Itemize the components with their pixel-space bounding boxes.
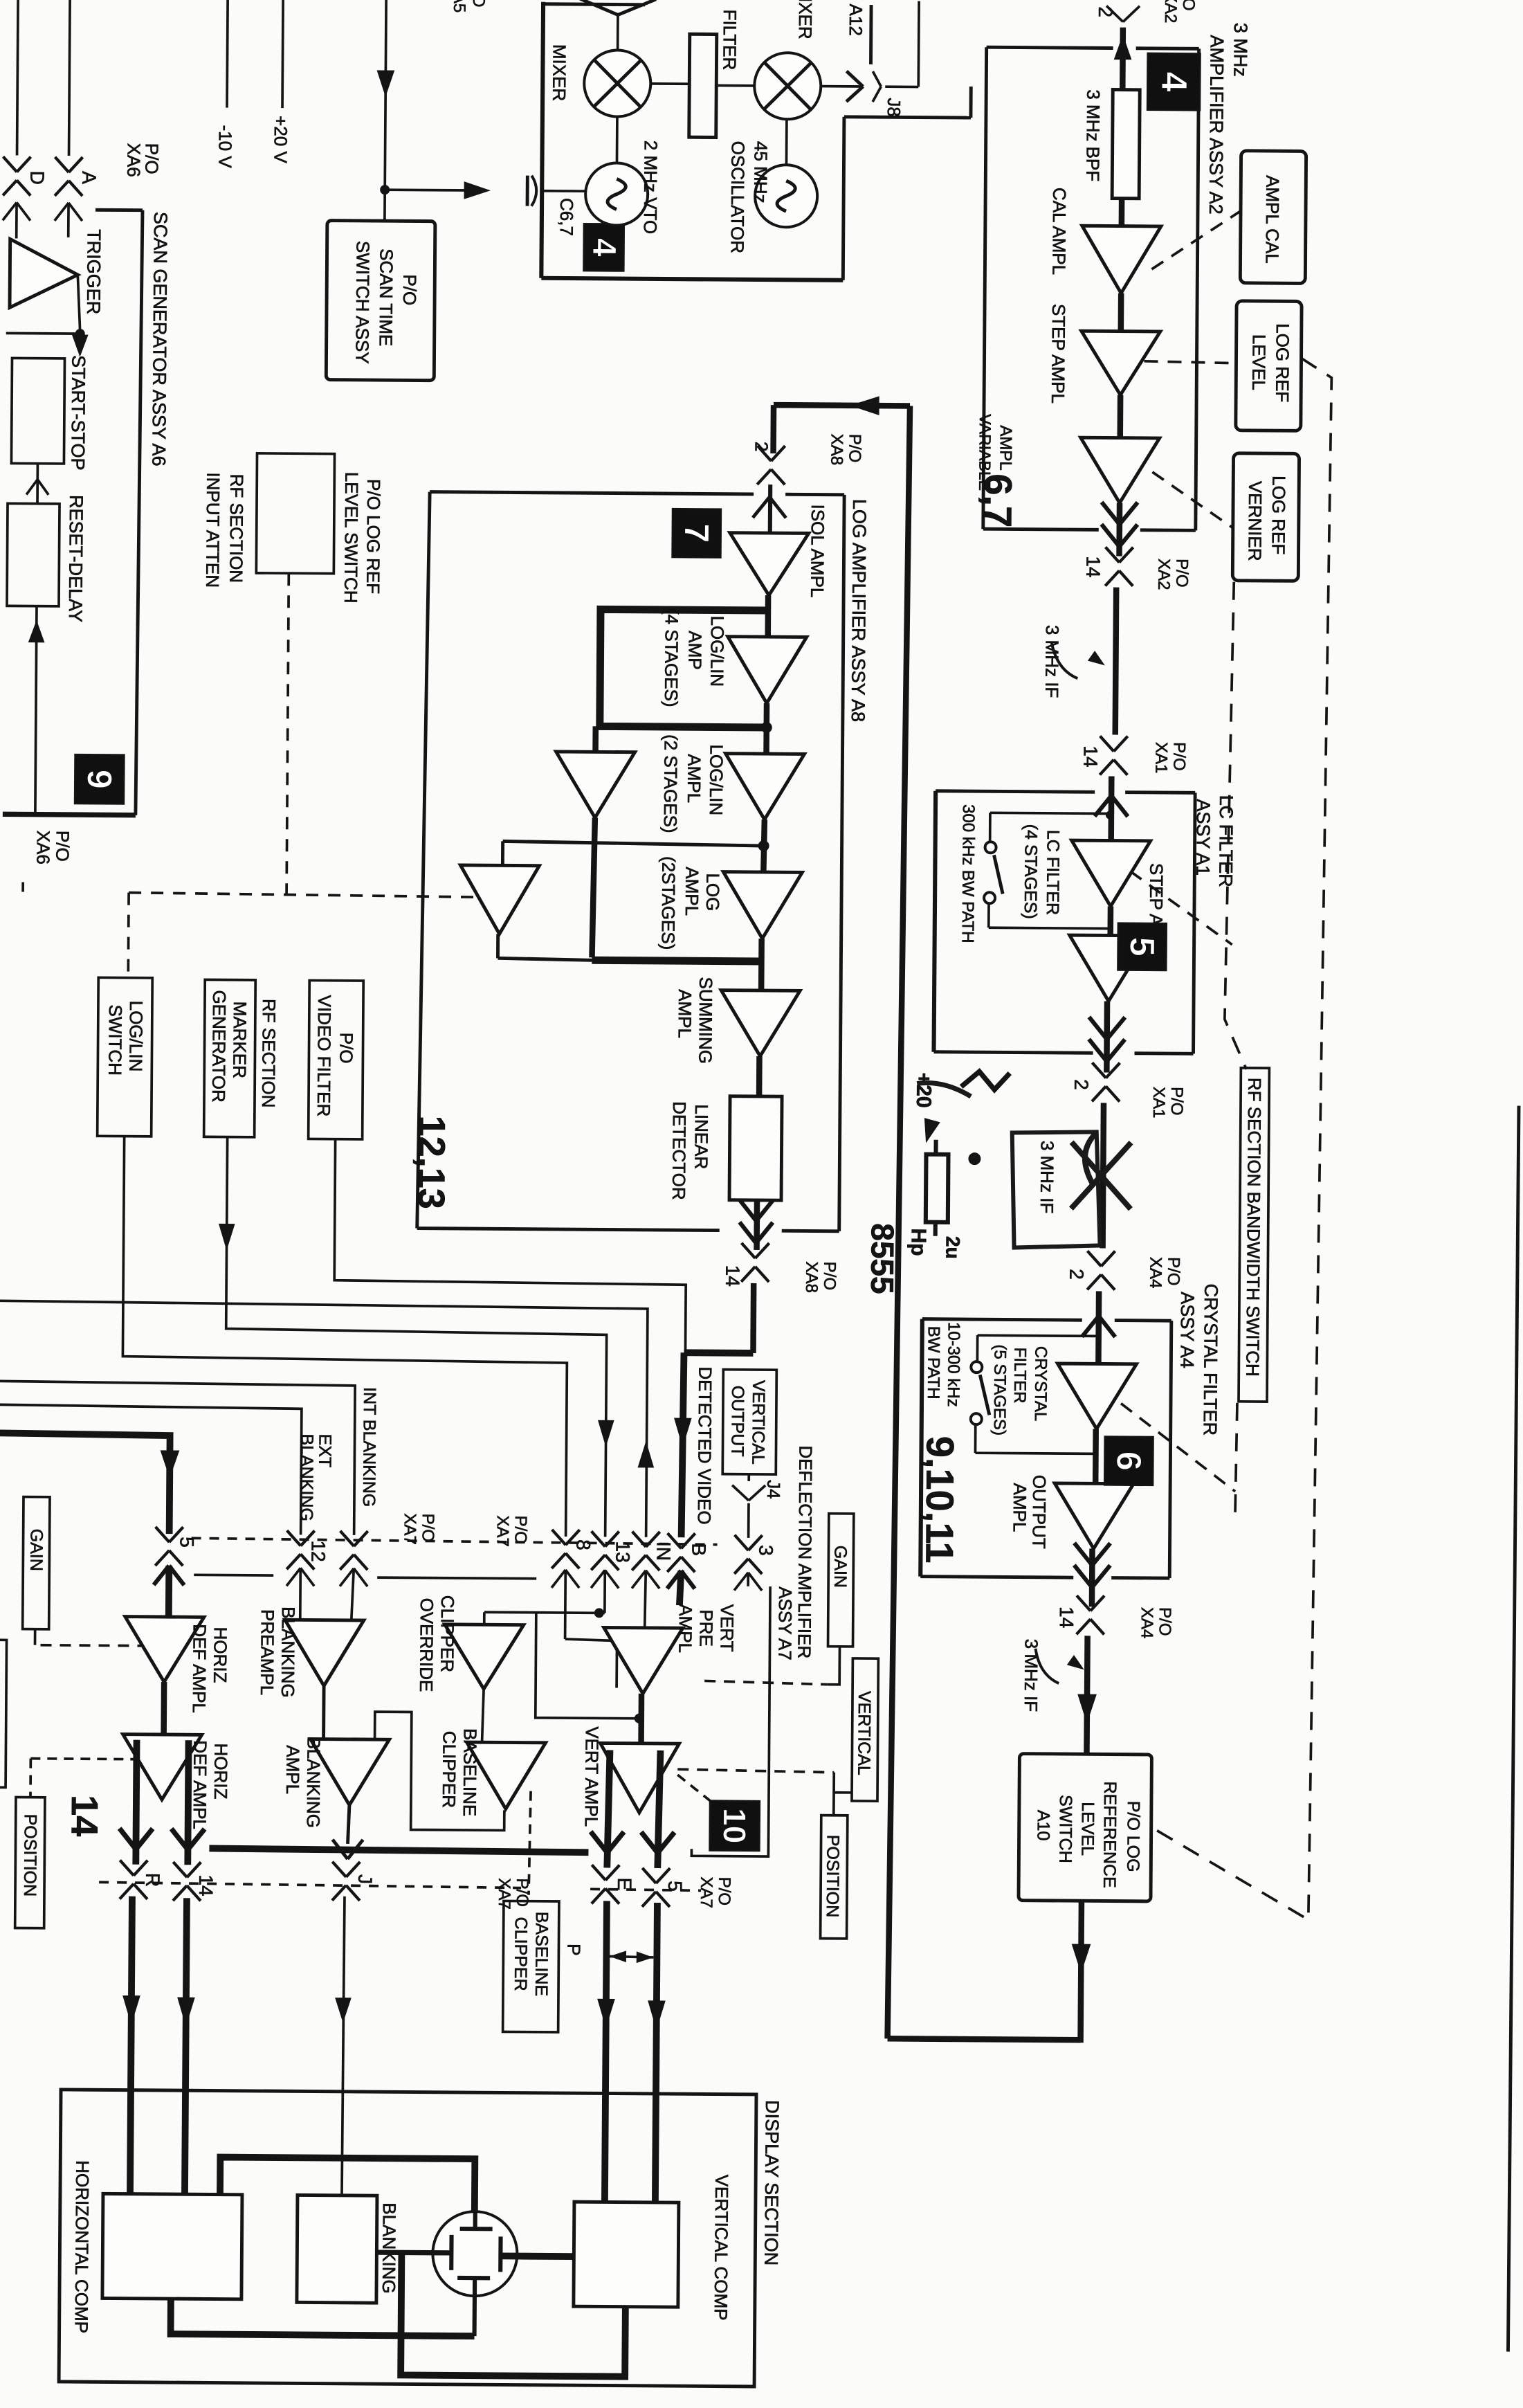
node junction scan time	[380, 185, 390, 194]
wire with arrow into START-STOP	[73, 335, 88, 356]
connector J4	[747, 1474, 750, 1481]
edge line right of page	[1508, 1106, 1519, 2352]
svg-text:MIXER: MIXER	[549, 44, 570, 102]
svg-text:EXT: EXT	[315, 1434, 334, 1468]
feedback rect LOG/LIN AMP (4 STAGES)	[600, 609, 767, 727]
svg-text:3 MHz IF: 3 MHz IF	[1021, 1639, 1042, 1712]
capacitor C6,7	[526, 176, 529, 206]
op-amp CRYSTAL FILTER (5 STAGES)	[1057, 1364, 1137, 1429]
arrow annotation lower 3MHz IF	[1035, 1649, 1059, 1683]
thick bus below deflection amps	[209, 1848, 588, 1852]
op-amp BLANKING AMPL	[310, 1739, 390, 1805]
svg-text:J4: J4	[763, 1480, 784, 1499]
wire horizontal signal thick to pin 5	[0, 1433, 170, 1534]
connector XA7 pin IN	[632, 1532, 646, 1547]
wire pin 14 to horizontal comp	[185, 1898, 187, 2194]
svg-text:XA6: XA6	[123, 143, 144, 177]
svg-text:DEF AMPL: DEF AMPL	[190, 1740, 211, 1829]
wire bypass bottom	[987, 904, 990, 927]
node after log/lin amp	[761, 722, 772, 733]
wire clipper override in	[483, 1612, 486, 1624]
black box 10	[709, 1801, 760, 1852]
svg-text:4: 4	[1153, 71, 1194, 91]
svg-text:XA4: XA4	[1138, 1607, 1156, 1639]
crt bottom stub	[473, 2278, 477, 2336]
svg-text:P/O: P/O	[336, 1033, 356, 1064]
op-amp CAL AMPL	[1082, 226, 1161, 293]
svg-text:P/O LOG: P/O LOG	[1123, 1801, 1143, 1872]
box MARKER GENERATOR	[204, 979, 256, 1137]
arrow into LC filter	[1108, 777, 1114, 841]
block RESET-DELAY	[7, 503, 60, 606]
svg-text:FILTER: FILTER	[1010, 1348, 1030, 1404]
svg-text:DETECTOR: DETECTOR	[668, 1101, 690, 1200]
wire blanking route to vertical comp bottom	[401, 2252, 626, 2376]
wire trigger output	[77, 275, 81, 332]
box crystal filter assy A4	[922, 1319, 1082, 1321]
svg-text:B: B	[688, 1543, 709, 1556]
wire left tri1 down to bottom bus	[592, 817, 594, 957]
wire 3 MHz IF into A10	[1086, 1636, 1087, 1754]
svg-text:P/O: P/O	[1167, 1087, 1186, 1116]
op-amp LOG/LIN AMP	[727, 637, 807, 704]
handwritten X over wire	[1071, 1134, 1131, 1209]
svg-text:CLIPPER: CLIPPER	[437, 1595, 458, 1672]
A7 box top edge segments	[194, 1573, 273, 1577]
svg-text:OUTPUT: OUTPUT	[727, 1386, 747, 1457]
svg-text:PRE: PRE	[696, 1609, 717, 1647]
svg-text:BW PATH: BW PATH	[924, 1326, 943, 1400]
wire detected video down	[750, 1283, 756, 1353]
dashed callout cal ampl to AMPL CAL	[1151, 210, 1241, 270]
wire variable ampl out with double chevron	[1116, 503, 1122, 556]
wire crt right to vertical comp	[500, 2253, 574, 2261]
svg-text:LOG REF: LOG REF	[1268, 476, 1290, 554]
svg-text:AMPL: AMPL	[675, 989, 695, 1038]
svg-text:9,10,11: 9,10,11	[918, 1436, 962, 1564]
wire detected video to pin B	[682, 1352, 684, 1537]
svg-text:2: 2	[1095, 6, 1116, 17]
boxed label BASELINE CLIPPER lower	[503, 1901, 559, 2032]
op-amp HORIZ DEF AMPL output	[122, 1735, 202, 1800]
svg-text:LOG AMPLIFIER ASSY A8: LOG AMPLIFIER ASSY A8	[848, 499, 870, 722]
svg-text:XA1: XA1	[1151, 742, 1170, 774]
wire left branch down to left tri 1	[592, 726, 599, 752]
wire vert ampl outputs E and 5	[607, 1750, 610, 1867]
box P/O LOG REFERENCE LEVEL SWITCH A10	[1019, 1754, 1151, 1901]
svg-text:XA8: XA8	[827, 434, 846, 466]
boxed label VERTICAL OUTPUT	[722, 1370, 776, 1475]
svg-text:LOG: LOG	[702, 873, 723, 911]
wire branch to vert ampl	[536, 1613, 640, 1719]
crt top stem	[473, 2212, 477, 2227]
op-amp BASELINE CLIPPER	[466, 1742, 546, 1809]
svg-text:RF SECTION: RF SECTION	[258, 999, 280, 1108]
wire step to variable	[1117, 395, 1123, 438]
svg-text:10-300 kHz: 10-300 kHz	[944, 1322, 963, 1407]
op-amp LOG AMPL main	[723, 872, 803, 939]
svg-text:XA4: XA4	[1146, 1257, 1165, 1289]
box LOG REF VERNIER	[1232, 453, 1299, 581]
dashed control line from input atten	[286, 573, 289, 894]
wire XA6 pin D from page top	[17, 0, 19, 155]
svg-text:TRIGGER: TRIGGER	[83, 229, 104, 314]
svg-text:RF SECTION: RF SECTION	[226, 474, 247, 583]
wire pin E to vertical comp	[605, 1901, 607, 2202]
wire output ampl exit with double chevron	[1089, 1548, 1095, 1606]
wire filter to mixer2	[716, 84, 754, 87]
svg-text:P/O: P/O	[820, 1262, 839, 1291]
wire to log ampl	[763, 820, 765, 872]
svg-text:3 MHz: 3 MHz	[1230, 23, 1251, 77]
open arrows under XA7 pins	[154, 1566, 169, 1585]
op-amp TRIGGER	[10, 239, 78, 308]
wire start-stop to reset-delay	[36, 464, 39, 504]
connector XA7 pin 13	[592, 1531, 605, 1546]
op-amp STEP AMPL	[1081, 331, 1160, 395]
svg-text:BASELINE: BASELINE	[459, 1728, 481, 1816]
box AMPL CAL	[1240, 151, 1306, 284]
svg-text:3 MHz BPF: 3 MHz BPF	[1082, 89, 1104, 181]
svg-text:AMP: AMP	[684, 631, 705, 670]
block LINEAR DETECTOR	[729, 1096, 782, 1201]
wire BPF to cal ampl	[1119, 199, 1125, 226]
boxed label RF SECTION BANDWIDTH SWITCH	[1239, 1068, 1269, 1402]
svg-text:XA1: XA1	[1149, 1087, 1168, 1119]
svg-text:INPUT ATTEN: INPUT ATTEN	[202, 472, 224, 588]
svg-text:C6,7: C6,7	[556, 198, 577, 236]
op-amp left log stage 2	[460, 865, 540, 934]
svg-text:HORIZ: HORIZ	[210, 1627, 231, 1683]
mixer M1	[584, 50, 651, 117]
boxed label GAIN left	[23, 1497, 50, 1629]
svg-text:8: 8	[572, 1539, 594, 1550]
box DISPLAY SECTION	[59, 2090, 756, 2387]
svg-text:BLANKING: BLANKING	[303, 1737, 325, 1828]
svg-text:VERT: VERT	[716, 1604, 737, 1652]
boxed label POSITION right	[821, 1816, 848, 1939]
arrow into trigger D	[3, 202, 17, 220]
dashed callout lc filter triangle	[1130, 871, 1233, 945]
op-amp STEP AMPL A1	[1069, 935, 1149, 1002]
svg-text:MARKER: MARKER	[229, 1002, 250, 1078]
svg-text:POSITION: POSITION	[823, 1835, 843, 1918]
node junction below trigger	[75, 329, 85, 338]
op-amp VERT PRE AMPL	[603, 1627, 683, 1694]
svg-text:START-STOP: START-STOP	[67, 355, 89, 471]
connector XA7 pin B	[668, 1533, 682, 1548]
svg-text:MIXER: MIXER	[795, 0, 817, 39]
svg-text:XA2: XA2	[1154, 559, 1173, 590]
svg-text:14: 14	[1056, 1606, 1077, 1628]
long dashed line LOG REF LEVEL to A10 switch	[1152, 357, 1332, 1920]
dashed callout step ampl to LOG REF LEVEL	[1144, 361, 1236, 363]
svg-text:P/O: P/O	[419, 1514, 437, 1543]
wire horiz preamp to def ampl	[161, 1682, 167, 1735]
wire feedback top run to XA8	[774, 405, 910, 406]
svg-text:BLANKING: BLANKING	[277, 1606, 299, 1698]
black box 4 mixer assy	[583, 224, 623, 271]
svg-text:45 MHz: 45 MHz	[750, 141, 772, 203]
box P/O VIDEO FILTER	[309, 980, 364, 1139]
op-amp BLANKING PREAMPL	[284, 1620, 364, 1686]
svg-text:9: 9	[80, 770, 119, 789]
wire clipper override to baseline clipper	[482, 1689, 484, 1742]
svg-text:REFERENCE: REFERENCE	[1100, 1781, 1120, 1888]
arrow annotation on 3MHz IF wire	[1051, 642, 1077, 678]
wire INT BLANKING to pin	[0, 1381, 355, 1535]
connector XA7 pin 5 lower	[642, 1868, 656, 1883]
svg-text:6: 6	[1109, 1451, 1148, 1471]
svg-text:VERTICAL COMP: VERTICAL COMP	[711, 2175, 732, 2321]
svg-text:AMPL: AMPL	[1010, 1483, 1030, 1532]
svg-text:AMPL: AMPL	[675, 1604, 695, 1653]
arrow into A8	[768, 485, 773, 533]
handwritten zigzag link	[961, 1071, 1010, 1089]
svg-text:XA7: XA7	[493, 1515, 512, 1547]
connector XA7 pin 14	[173, 1862, 187, 1877]
connector XA1 pin 14	[1100, 736, 1114, 751]
op-amp VARIABLE AMPL	[1080, 437, 1160, 503]
handwritten arrow	[924, 1119, 939, 1142]
connector XA1 pin 2	[1092, 1062, 1106, 1078]
wire marker generator to pin 13	[225, 1137, 608, 1537]
svg-text:P/O: P/O	[1156, 1607, 1174, 1636]
svg-text:(2STAGES): (2STAGES)	[658, 856, 680, 950]
svg-text:CRYSTAL FILTER: CRYSTAL FILTER	[1200, 1283, 1222, 1436]
svg-text:14: 14	[1082, 556, 1104, 577]
connector plane XA7 lower dashed	[99, 1882, 521, 1888]
wire video filter to detected video	[334, 1139, 686, 1353]
wire feedback bottom run	[888, 2038, 1081, 2040]
svg-text:AMPL CAL: AMPL CAL	[1261, 175, 1283, 264]
wire pin8 to vert preamp side	[565, 1639, 617, 1688]
svg-text:ASSY A7: ASSY A7	[774, 1586, 796, 1660]
svg-text:A: A	[78, 171, 100, 184]
svg-text:XA7: XA7	[401, 1513, 419, 1545]
svg-text:LEVEL: LEVEL	[1077, 1802, 1097, 1856]
filter 3 MHz BPF	[1112, 90, 1140, 199]
wire from page edge to pin IN	[0, 1301, 648, 1537]
svg-text:LC FILTER: LC FILTER	[1043, 830, 1063, 915]
svg-text:2: 2	[1070, 1079, 1092, 1090]
svg-text:3: 3	[755, 1545, 776, 1556]
svg-text:DEFLECTION AMPLIFIER: DEFLECTION AMPLIFIER	[794, 1445, 816, 1658]
filter block	[689, 34, 717, 137]
boxed label HORIZONTAL cut at edge	[0, 1640, 7, 1787]
svg-text:INT BLANKING: INT BLANKING	[359, 1387, 379, 1507]
svg-text:OUTPUT: OUTPUT	[1029, 1475, 1050, 1549]
svg-text:ASSY A1: ASSY A1	[1192, 799, 1214, 876]
svg-text:FILTER: FILTER	[719, 10, 740, 71]
box LOG/LIN SWITCH	[98, 977, 153, 1137]
svg-text:PREAMPL: PREAMPL	[257, 1609, 278, 1695]
wire lc filter to step ampl	[1107, 907, 1113, 936]
svg-text:ASSY A4: ASSY A4	[1176, 1292, 1198, 1368]
svg-text:J: J	[354, 1874, 376, 1884]
svg-text:XA6: XA6	[33, 831, 53, 864]
svg-text:R: R	[142, 1873, 163, 1887]
box mixer assy	[541, 2, 543, 278]
svg-text:DISPLAY SECTION: DISPLAY SECTION	[760, 2100, 783, 2265]
svg-text:+20 V: +20 V	[270, 116, 291, 164]
oscillator 2 MHz VTO	[585, 163, 648, 226]
svg-text:P/O: P/O	[1179, 0, 1198, 11]
wire feedback long vertical to log amp	[888, 406, 910, 2038]
oscillator 45 MHz	[755, 165, 818, 228]
svg-text:14: 14	[722, 1265, 743, 1287]
svg-text:HORIZ: HORIZ	[210, 1743, 232, 1799]
svg-text:A5: A5	[450, 0, 468, 12]
black box 9	[75, 754, 124, 804]
svg-text:BASELINE: BASELINE	[531, 1912, 551, 1996]
svg-text:RESET-DELAY: RESET-DELAY	[65, 495, 86, 622]
svg-text:P/O: P/O	[1169, 742, 1188, 771]
box LOG REF LEVEL	[1236, 301, 1302, 431]
node after log/lin ampl	[758, 840, 769, 851]
svg-text:300 kHz BW PATH: 300 kHz BW PATH	[958, 804, 978, 943]
switch 10-300 kHz BW PATH	[971, 1361, 982, 1373]
dashed callout variable ampl to LOG REF VERNIER	[1152, 472, 1234, 528]
wire J8 up offpage	[885, 85, 918, 88]
svg-text:AMPL: AMPL	[684, 754, 704, 803]
svg-text:A10: A10	[1034, 1810, 1053, 1841]
black box 4 on A2	[1147, 53, 1201, 111]
svg-text:OSCILLATOR: OSCILLATOR	[727, 141, 749, 254]
wire mixer1 to filter	[650, 82, 689, 85]
svg-text:P/O: P/O	[1172, 559, 1191, 588]
op-amp CLIPPER OVERRIDE	[444, 1624, 524, 1690]
svg-text:GAIN: GAIN	[830, 1546, 850, 1588]
svg-text:D: D	[26, 171, 48, 185]
svg-text:OVERRIDE: OVERRIDE	[416, 1598, 437, 1692]
connector XA7 pin E	[592, 1865, 605, 1880]
box 3 MHz amplifier assy A2	[987, 47, 1113, 48]
wire +20V	[282, 0, 283, 108]
svg-text:P/O: P/O	[715, 1877, 733, 1906]
wire step ampl out of A1 with double chevron	[1104, 1001, 1110, 1072]
connector XA6 pin A	[55, 157, 69, 172]
wire -10V	[227, 0, 228, 108]
svg-text:+20: +20	[912, 1073, 935, 1108]
svg-text:10: 10	[717, 1808, 753, 1844]
op-amp left log stage 1	[556, 752, 635, 818]
svg-text:VIDEO FILTER: VIDEO FILTER	[313, 995, 335, 1116]
wire linear detector out double chevron	[754, 1200, 760, 1250]
svg-text:VERTICAL: VERTICAL	[854, 1691, 874, 1775]
svg-text:Hp: Hp	[906, 1228, 929, 1256]
wire log/lin switch to pin 8	[122, 1137, 569, 1537]
arrow into trigger A	[55, 203, 69, 221]
wire below reset-delay with up arrow	[35, 606, 37, 815]
connector XA4 pin 2	[1087, 1251, 1101, 1266]
wire pin13 to clipper override	[484, 1612, 605, 1613]
connector plane XA7 dashed	[192, 1538, 718, 1544]
handwritten resistor	[926, 1155, 949, 1222]
switch 300 kHz BW PATH	[985, 842, 996, 853]
boxed label VERTICAL	[852, 1658, 878, 1801]
dashed gain line to horiz def ampl	[41, 1645, 144, 1646]
svg-text:DETECTED VIDEO: DETECTED VIDEO	[694, 1366, 716, 1524]
wire junction to page edge	[6, 332, 80, 335]
svg-text:14: 14	[195, 1874, 217, 1896]
wire loglin to next	[763, 703, 769, 754]
wire pin J to blanking	[342, 1896, 345, 2196]
black box 7	[673, 509, 721, 557]
svg-text:J8: J8	[884, 98, 904, 117]
svg-text:2: 2	[751, 442, 772, 452]
svg-text:BLANKING: BLANKING	[379, 2202, 400, 2294]
wire down to scan time box	[383, 190, 386, 221]
dashed vertical/position link	[677, 1769, 834, 1773]
svg-text:(4 STAGES): (4 STAGES)	[1021, 824, 1041, 919]
wire junction to C6,7	[385, 188, 483, 192]
svg-text:VERTICAL: VERTICAL	[748, 1380, 768, 1465]
svg-text:4: 4	[585, 238, 622, 257]
svg-text:AMPL: AMPL	[682, 867, 702, 916]
block VERTICAL COMP	[574, 2202, 679, 2307]
svg-text:LEVEL: LEVEL	[1248, 334, 1270, 390]
partial amplifier at page top	[580, 0, 618, 15]
svg-text:LC FILTER: LC FILTER	[1215, 795, 1237, 887]
wire J4 to pin 3	[747, 1503, 750, 1538]
connector XA7 pin R	[120, 1861, 134, 1876]
wire vert preamp to vert ampl	[638, 1694, 644, 1744]
long dashed line VERNIER to bandwidth switch label	[1224, 582, 1250, 1069]
wire cal to step	[1118, 293, 1124, 332]
wire left tri2 to bottom bus	[496, 934, 500, 958]
svg-text:CLIPPER: CLIPPER	[439, 1731, 460, 1808]
svg-text:SCAN GENERATOR ASSY A6: SCAN GENERATOR ASSY A6	[148, 212, 171, 467]
op-amp HORIZ DEF AMPL preamp	[125, 1617, 204, 1683]
wire summing to linear detector	[756, 1056, 763, 1096]
svg-text:ISOL AMPL: ISOL AMPL	[807, 504, 828, 597]
svg-text:12: 12	[307, 1540, 329, 1561]
op-amp VERT AMPL	[600, 1743, 680, 1813]
svg-text:P/O: P/O	[52, 831, 73, 862]
svg-text:ASSY A12: ASSY A12	[846, 0, 867, 36]
svg-text:VERT AMPL: VERT AMPL	[581, 1726, 603, 1827]
wire horiz comp bottom to crt	[171, 2299, 475, 2336]
boxed label POSITION left	[15, 1798, 45, 1928]
svg-text:SCAN TIME: SCAN TIME	[376, 248, 397, 346]
svg-text:LINEAR: LINEAR	[691, 1104, 712, 1169]
svg-text:3 MHz IF: 3 MHz IF	[1037, 1141, 1058, 1214]
boxed label GAIN right	[828, 1514, 854, 1647]
svg-text:5: 5	[176, 1537, 197, 1548]
svg-text:HORIZONTAL COMP: HORIZONTAL COMP	[71, 2160, 93, 2333]
connector XA7 pin J	[332, 1862, 346, 1877]
block START-STOP	[11, 358, 64, 464]
op-amp SUMMING AMPL	[720, 990, 800, 1057]
box P/O SCAN TIME SWITCH ASSY	[326, 221, 435, 381]
svg-text:P/O: P/O	[399, 274, 420, 305]
svg-text:8555: 8555	[864, 1223, 901, 1294]
svg-text:LOG REF: LOG REF	[1272, 323, 1293, 402]
svg-text:5: 5	[1122, 937, 1161, 957]
connector XA7 pin 5	[156, 1527, 170, 1542]
handwritten box around 3 MHz IF	[1012, 1132, 1101, 1249]
svg-text:XA2: XA2	[1161, 0, 1180, 24]
svg-text:IN: IN	[653, 1541, 674, 1561]
wire isol to log/lin amp	[765, 595, 771, 637]
svg-text:AMPL: AMPL	[282, 1745, 303, 1794]
wire thin branch to left tri 2	[503, 841, 764, 846]
svg-text:14: 14	[64, 1795, 105, 1836]
svg-text:2: 2	[1066, 1269, 1087, 1280]
connector XA4 pin 14	[1077, 1595, 1091, 1611]
wire detected video left jog	[684, 1349, 753, 1356]
